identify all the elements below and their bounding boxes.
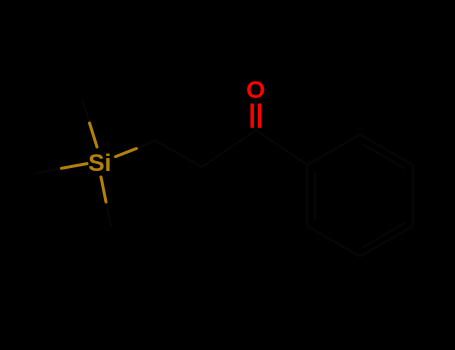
silicon gold half-bonds: [62, 123, 137, 202]
ring double bond inner lines: [364, 145, 405, 169]
bond CO-ring: [256, 130, 307, 165]
bond Si-methyl up, gold half: [90, 123, 98, 147]
bond Si-C1 gold half: [116, 149, 137, 157]
wire: ghost carbon skeleton (near-black): [36, 100, 413, 257]
svg-text:Si: Si: [88, 150, 111, 177]
bond Si-methyl left, gold half: [62, 164, 88, 169]
bond C1-C2 chain: [136, 130, 256, 167]
benzene ring: [307, 135, 413, 257]
bond Si-methyl down, gold half: [101, 177, 106, 202]
svg-text:O: O: [246, 77, 265, 104]
carbonyl double bond C=O (red): [252, 104, 260, 128]
methyl black halves: [83, 100, 90, 123]
